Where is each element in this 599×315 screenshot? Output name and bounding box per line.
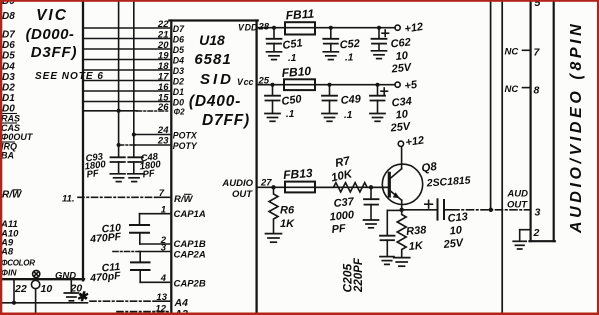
overline SID R/W — [184, 193, 192, 195]
terminal +5 VCC — [395, 82, 400, 87]
svg-text:24: 24 — [157, 125, 169, 136]
svg-text:POTY: POTY — [173, 141, 198, 151]
node audio to modulator — [489, 208, 493, 212]
svg-text:D4: D4 — [2, 62, 15, 73]
VIC pin 22 wire phi-color — [13, 280, 15, 303]
capacitor C51 .1 — [267, 28, 282, 52]
svg-text:20: 20 — [157, 40, 169, 51]
wire SID pin 1 CAP1A — [140, 213, 170, 215]
svg-text:22: 22 — [14, 283, 27, 295]
wire NC pin 8 — [523, 87, 531, 89]
svg-text:D7: D7 — [173, 24, 185, 34]
svg-text:21: 21 — [157, 29, 169, 40]
svg-text:23: 23 — [157, 136, 169, 147]
wire vertical video line — [501, 0, 503, 313]
wire D4 VIC to SID pin 19 — [84, 59, 170, 61]
svg-text:D2: D2 — [173, 76, 184, 86]
power rail component labels — [281, 7, 424, 135]
svg-text:D2: D2 — [2, 83, 15, 94]
capacitor C11 470pF — [131, 252, 150, 283]
audio section labels — [280, 134, 471, 293]
svg-text:R/W: R/W — [174, 194, 194, 205]
wire C13 to AV connector pin 3 — [444, 209, 531, 211]
svg-text:.1: .1 — [288, 53, 297, 64]
svg-text:V DD: V DD — [238, 23, 258, 33]
svg-text:2: 2 — [533, 227, 540, 239]
svg-text:1K: 1K — [280, 218, 295, 230]
svg-text:27: 27 — [260, 177, 272, 188]
svg-text:BA: BA — [1, 151, 14, 161]
capacitor C49 .1 — [322, 85, 337, 114]
svg-text:10: 10 — [41, 283, 53, 295]
node VCC-C50 — [271, 83, 275, 87]
svg-text:R/W: R/W — [2, 190, 23, 201]
svg-text:SEE NOTE 6: SEE NOTE 6 — [35, 71, 104, 82]
svg-text:V cc: V cc — [237, 77, 253, 87]
svg-text:FB10: FB10 — [281, 64, 312, 80]
ground C62 — [372, 51, 387, 59]
svg-text:(D000-: (D000- — [26, 26, 75, 43]
wire D3 VIC to SID pin 18 — [84, 69, 170, 71]
node VCC-C49 — [328, 83, 332, 87]
svg-text:D7: D7 — [2, 30, 15, 41]
ground C52 — [323, 52, 338, 60]
svg-text:Q8: Q8 — [421, 161, 438, 175]
SID right pin numbers — [258, 21, 273, 188]
wire A4 to SID pin 13 — [90, 300, 170, 302]
svg-text:PF: PF — [331, 223, 347, 236]
capacitor C37 1000PF — [364, 187, 379, 219]
wire bottom horizontal from phi pins — [0, 301, 88, 305]
svg-text:25V: 25V — [442, 237, 465, 251]
wire SID pin 25 VCC rail — [258, 84, 395, 86]
node VCC-C34 — [376, 83, 380, 87]
svg-text:.1: .1 — [286, 109, 295, 120]
node VDD-C51 — [272, 26, 276, 30]
svg-text:1: 1 — [161, 204, 166, 215]
wire POTX to SID pin 24 — [132, 133, 170, 137]
node base-C37 — [369, 185, 373, 189]
SID power pin labels — [221, 23, 258, 200]
capacitor C62 10 25V polarized — [372, 28, 389, 51]
IC U18 6581 SID box — [169, 21, 257, 315]
resistor R38 1K — [397, 210, 406, 257]
capacitor C10 470PF — [130, 214, 149, 244]
capacitor C48 1800PF — [128, 157, 143, 173]
svg-text:16: 16 — [158, 82, 169, 93]
svg-text:19: 19 — [158, 50, 169, 61]
wire D0 VIC to SID pin 15 — [84, 101, 170, 103]
svg-text:C37: C37 — [333, 196, 355, 210]
svg-text:(D400-: (D400- — [189, 93, 241, 110]
svg-text:D5: D5 — [2, 51, 15, 62]
svg-text:26: 26 — [157, 102, 169, 113]
svg-text:11.: 11. — [62, 194, 75, 205]
VIC bottom pin numbers — [14, 194, 89, 305]
svg-text:C13: C13 — [447, 211, 468, 225]
svg-text:ΦIN: ΦIN — [1, 268, 17, 278]
svg-text:R38: R38 — [406, 224, 428, 238]
resistor R6 1K — [269, 187, 278, 233]
ground C51 — [267, 52, 282, 60]
ferrite bead FB10 — [284, 79, 315, 90]
transistor Q8 2SC1815 — [382, 147, 422, 210]
ground C34 — [370, 114, 385, 122]
wire SID pin 28 VDD rail — [258, 27, 395, 29]
svg-text:AUD: AUD — [506, 189, 528, 200]
capacitor C50 .1 — [265, 85, 280, 114]
svg-text:D1: D1 — [2, 93, 15, 104]
node VDD-C62 — [377, 26, 381, 30]
VIC pin name labels left column — [0, 0, 76, 281]
wire D2 VIC to SID pin 17 — [84, 80, 170, 82]
svg-text:10: 10 — [395, 108, 409, 121]
svg-text:POTX: POTX — [173, 131, 198, 141]
svg-text:25V: 25V — [390, 61, 413, 75]
wire SID pin 3 CAP2A — [113, 251, 170, 253]
connector AUDIO/VIDEO (8 PIN) box — [530, 0, 555, 241]
capacitor C52 .1 — [323, 28, 338, 52]
ferrite bead FB13 — [285, 182, 315, 193]
SID pin name labels inside — [173, 24, 206, 315]
wire D1 VIC to SID pin 16 — [84, 90, 170, 92]
svg-text:OUT: OUT — [507, 200, 528, 211]
IC U18 6581 SID title — [189, 32, 250, 129]
svg-text:1K: 1K — [408, 240, 424, 253]
svg-text:PF: PF — [142, 168, 156, 180]
svg-text:3: 3 — [161, 242, 167, 253]
svg-text:CAP2A: CAP2A — [174, 250, 206, 261]
svg-text:8: 8 — [534, 85, 540, 97]
ground C49 — [322, 114, 337, 122]
svg-text:3: 3 — [535, 207, 541, 219]
ground C37 — [364, 220, 379, 228]
svg-text:28: 28 — [258, 21, 270, 32]
ground C48 — [128, 174, 143, 182]
svg-text:U18: U18 — [199, 32, 225, 48]
svg-text:ΦCOLOR: ΦCOLOR — [1, 259, 35, 268]
svg-text:D7FF): D7FF) — [202, 112, 250, 129]
svg-text:NC: NC — [505, 84, 519, 95]
svg-text:18: 18 — [158, 61, 169, 72]
svg-text:.1: .1 — [345, 53, 354, 64]
terminal +12 collector — [398, 141, 403, 146]
ground C93 — [110, 174, 125, 182]
wire SID pin 27 audio out — [258, 186, 389, 188]
svg-text:CAP1A: CAP1A — [174, 209, 206, 220]
ground R38 — [394, 258, 410, 267]
wire NC pin 7 — [523, 49, 531, 51]
svg-text:10: 10 — [449, 224, 463, 237]
ground C205 — [380, 257, 394, 265]
svg-text:NC: NC — [505, 47, 519, 58]
SID pin numbers at left edge — [155, 19, 169, 315]
overlines for active-low signals — [1, 114, 21, 190]
capacitor labels C93 C48 C10 C11 — [84, 151, 162, 284]
svg-text:22: 22 — [157, 19, 169, 30]
connector labels — [505, 0, 541, 239]
svg-text:C52: C52 — [339, 38, 360, 52]
svg-text:R6: R6 — [280, 205, 295, 217]
capacitor C205 220PF — [380, 210, 395, 256]
capacitor C93 1800PF — [111, 157, 125, 173]
svg-text:C62: C62 — [390, 36, 411, 50]
ground R6 — [266, 234, 282, 243]
svg-text:✱: ✱ — [77, 289, 89, 304]
wire A3 to SID pin 12 — [117, 311, 170, 313]
wire POTX bus vertical — [133, 0, 135, 157]
svg-text:CAP1B: CAP1B — [174, 239, 206, 250]
svg-text:OUT: OUT — [232, 189, 253, 200]
svg-text:D6: D6 — [2, 40, 15, 51]
wire POTY bus vertical — [118, 0, 120, 157]
ferrite bead FB11 — [285, 22, 315, 34]
svg-text:C49: C49 — [340, 93, 362, 107]
svg-text:PF: PF — [86, 168, 100, 180]
svg-text:GND: GND — [55, 270, 76, 281]
svg-text:FB11: FB11 — [285, 7, 315, 23]
svg-text:C34: C34 — [391, 95, 412, 109]
svg-text:.1: .1 — [344, 110, 353, 121]
svg-text:FB13: FB13 — [283, 166, 314, 182]
svg-text:D5: D5 — [173, 45, 184, 55]
svg-text:CAP2B: CAP2B — [174, 279, 206, 290]
resistor R7 10K — [315, 183, 371, 192]
node emitter — [400, 208, 404, 212]
wire R/W VIC pin 11 to SID pin 7 — [78, 196, 170, 198]
svg-text:17: 17 — [158, 71, 169, 82]
svg-text:4: 4 — [160, 273, 167, 284]
wire D5 VIC to SID pin 20 — [84, 48, 170, 50]
capacitor C34 10 25V polarized — [370, 85, 388, 114]
svg-text:13: 13 — [156, 292, 167, 303]
node audio-R6 — [271, 185, 275, 189]
wire D6 VIC to SID pin 21 — [84, 38, 170, 40]
svg-text:6581: 6581 — [194, 51, 231, 68]
svg-text:AUDIO: AUDIO — [221, 178, 253, 189]
ground C50 — [265, 114, 280, 122]
wire SID pin 2 CAP1B — [140, 243, 170, 245]
wire D7 VIC to SID pin 22 — [84, 27, 170, 29]
IC VIC title text — [26, 7, 104, 82]
VIC pin 20 GND ground — [64, 280, 78, 301]
svg-text:VIC: VIC — [36, 7, 68, 24]
wire vertical to modulator — [490, 0, 492, 210]
svg-text:D3: D3 — [173, 66, 184, 76]
terminal +12 VDD — [395, 25, 400, 30]
svg-text:SID: SID — [200, 71, 234, 88]
wire emitter to C205 — [387, 209, 401, 211]
capacitor C13 10 25V polarized — [425, 199, 444, 219]
svg-text:Φ2: Φ2 — [174, 108, 186, 117]
wire SID pin 4 CAP2B — [140, 281, 169, 283]
svg-text:25V: 25V — [389, 120, 412, 134]
svg-text:25: 25 — [258, 75, 270, 86]
svg-text:7: 7 — [159, 188, 165, 199]
wire base to Q8 — [371, 186, 388, 188]
svg-text:D8: D8 — [2, 11, 15, 22]
wire emitter to C13 — [402, 209, 437, 211]
svg-text:AUDIO/VIDEO (8PIN: AUDIO/VIDEO (8PIN — [568, 21, 585, 234]
svg-text:D4: D4 — [173, 55, 184, 65]
wire POTY to SID pin 23 — [117, 143, 170, 147]
VIC pin 10 clock circle — [31, 270, 39, 314]
svg-text:220PF: 220PF — [353, 257, 365, 293]
svg-text:D3FF): D3FF) — [31, 44, 78, 61]
IC VIC (D000-D3FF) box — [0, 0, 84, 280]
svg-text:D0: D0 — [173, 97, 184, 107]
svg-text:D1: D1 — [173, 87, 184, 97]
wire VIC phi0 to SID phi2 pin 26 — [84, 109, 170, 113]
svg-text:D3: D3 — [2, 72, 15, 83]
wire pin 2 to ground — [520, 230, 531, 241]
svg-text:D6: D6 — [173, 34, 184, 44]
node VDD-C52 — [329, 26, 333, 30]
ground connector pin 2 — [513, 241, 526, 249]
